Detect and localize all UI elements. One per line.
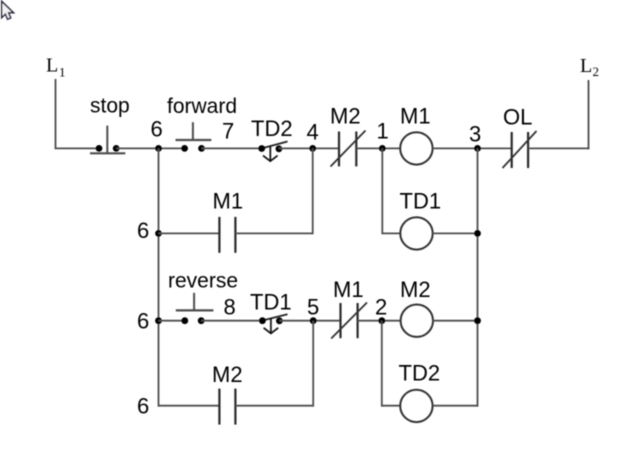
contact M2 (NO) (219, 389, 235, 425)
wire rung1 segment e (356, 147, 400, 149)
svg-text:1: 1 (377, 119, 389, 144)
pushbutton reverse (NO) (176, 293, 214, 324)
mouse cursor (2, 1, 14, 19)
wire column node4 to rung2 (312, 148, 314, 234)
node junction rung3-node3 (474, 317, 481, 324)
wire rung3 segment d (358, 320, 401, 322)
node 1 junction (379, 145, 386, 152)
wire TD1 rung segment a (382, 232, 400, 234)
wire column node5 to rung4 (312, 321, 314, 407)
svg-text:6: 6 (151, 117, 163, 142)
wire column node2 to TD2 rung (381, 321, 383, 407)
svg-text:5: 5 (307, 295, 319, 320)
svg-text:M1: M1 (213, 189, 244, 214)
coil TD2 (400, 390, 432, 422)
wire rung3 segment e (433, 320, 478, 322)
svg-text:M2: M2 (400, 277, 431, 302)
node 6 junction (rung1) (155, 145, 162, 152)
wire rung3 segment c (279, 320, 340, 322)
node 5 junction (310, 317, 317, 324)
node 2 junction (378, 317, 385, 324)
svg-text:2: 2 (593, 64, 600, 79)
wire rung3 segment a (159, 320, 185, 322)
wire rung2 segment a (159, 232, 220, 234)
rail L2 label (580, 55, 599, 79)
wire rung1 segment a (55, 147, 99, 149)
wire rung4 segment a (159, 405, 220, 407)
svg-text:6: 6 (137, 394, 149, 419)
svg-text:M2: M2 (212, 362, 243, 387)
contact M1 (NC) (331, 303, 367, 339)
svg-text:3: 3 (469, 122, 481, 147)
svg-text:TD2: TD2 (251, 116, 293, 141)
svg-text:2: 2 (375, 295, 387, 320)
wire rung1 segment g (528, 147, 589, 149)
wire rung1 segment f (432, 147, 511, 149)
wire rung2 segment b (235, 232, 312, 234)
svg-text:L: L (580, 55, 592, 77)
coil M1 (400, 132, 432, 164)
rail L2 wire (588, 80, 590, 149)
svg-text:stop: stop (90, 95, 130, 118)
svg-text:M2: M2 (330, 104, 361, 129)
wire rung1 segment c (202, 147, 262, 149)
pushbutton forward (NO) (176, 122, 212, 152)
coil M2 (401, 305, 433, 337)
node 4 junction (309, 145, 316, 152)
coil TD1 (400, 217, 432, 249)
svg-text:1: 1 (59, 65, 66, 80)
contact M1 (NO) (219, 217, 235, 253)
contact TD1 (NC timed-open) (259, 314, 288, 333)
rail L1 wire (55, 79, 57, 148)
rail L1 label (46, 55, 66, 80)
svg-text:TD1: TD1 (250, 290, 292, 315)
wire rung1 segment d (279, 147, 339, 149)
svg-text:OL: OL (503, 105, 532, 130)
svg-text:6: 6 (137, 218, 149, 243)
svg-text:TD2: TD2 (399, 361, 441, 386)
contact M2 (NC) (331, 131, 366, 167)
node junction TD1-node3 (474, 230, 481, 237)
wire column node6 (158, 148, 160, 406)
wire TD2 rung segment b (433, 405, 478, 407)
wire TD1 rung segment b (433, 232, 478, 234)
wire rung4 segment b (235, 405, 313, 407)
svg-text:M1: M1 (400, 104, 431, 129)
contact OL (NC overload) (503, 131, 537, 168)
svg-text:forward: forward (167, 95, 237, 118)
wire column node3 (477, 148, 479, 406)
svg-text:TD1: TD1 (400, 189, 442, 214)
svg-text:6: 6 (137, 309, 149, 334)
svg-text:4: 4 (307, 120, 319, 145)
node 6 junction (rung3) (155, 317, 162, 324)
svg-text:8: 8 (224, 295, 236, 320)
wire TD2 rung segment a (382, 405, 401, 407)
wire column node1 to TD1 rung (381, 148, 383, 234)
contact TD2 (NC timed-open) (258, 142, 287, 162)
pushbutton stop (NC) (90, 126, 125, 154)
svg-text:M1: M1 (333, 277, 364, 302)
svg-text:7: 7 (222, 119, 234, 144)
wire rung3 segment b (201, 320, 263, 322)
node 6 junction (rung2) (155, 230, 162, 237)
node 3 junction (474, 145, 481, 152)
svg-text:reverse: reverse (168, 270, 238, 293)
wire rung1 segment b (116, 147, 184, 149)
svg-text:L: L (46, 55, 58, 77)
